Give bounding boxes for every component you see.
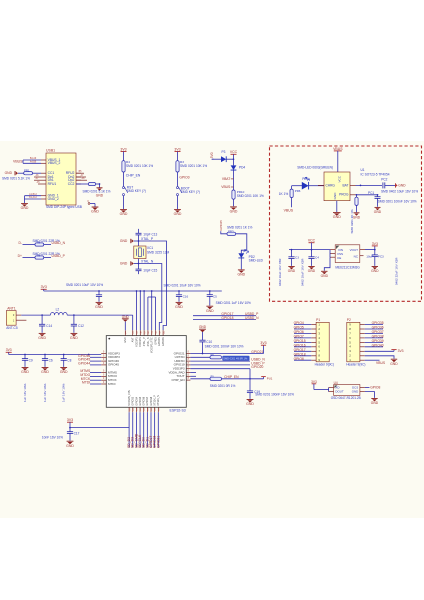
power 3V3 (c17) xyxy=(67,421,73,423)
svg-text:CC2: CC2 xyxy=(68,182,75,186)
svg-text:0402 22uF 16V X5R: 0402 22uF 16V X5R xyxy=(395,257,399,285)
svg-text:GPIO6: GPIO6 xyxy=(294,330,304,334)
svg-text:GPIO36: GPIO36 xyxy=(143,396,146,405)
svg-text:GND: GND xyxy=(288,269,296,273)
svg-text:GPIO37: GPIO37 xyxy=(372,330,384,334)
svg-text:C3: C3 xyxy=(295,255,299,259)
node XTAL_N xyxy=(138,259,140,270)
ground (usb shell right) xyxy=(92,206,99,208)
svg-text:10pF C13: 10pF C13 xyxy=(143,232,157,236)
svg-text:SMD 0201 10uF 10V 10%: SMD 0201 10uF 10V 10% xyxy=(66,283,103,287)
reg right pins xyxy=(360,249,365,251)
svg-text:VCC: VCC xyxy=(338,175,342,182)
power 3V3 (p2) xyxy=(365,350,394,352)
pin stubs right xyxy=(190,372,196,374)
svg-text:RFU1: RFU1 xyxy=(48,182,57,186)
ground (usb cc1) xyxy=(14,171,16,175)
svg-text:SMD 0201 10K 1%: SMD 0201 10K 1% xyxy=(126,164,153,168)
capacitor C9 xyxy=(24,354,26,356)
capacitor C3 xyxy=(178,290,180,292)
capacitor C12 xyxy=(73,315,75,324)
capacitor C14 xyxy=(41,315,43,324)
svg-text:VBUS_2: VBUS_2 xyxy=(48,161,61,165)
svg-text:VBUS: VBUS xyxy=(333,147,343,151)
svg-text:PC2: PC2 xyxy=(381,178,387,182)
wire BAT net xyxy=(356,184,383,186)
power 3V3 (vout) xyxy=(374,246,376,250)
svg-text:GPIO18: GPIO18 xyxy=(221,316,233,320)
svg-text:GPIO33: GPIO33 xyxy=(132,396,135,405)
svg-text:VDD3P3_CPU: VDD3P3_CPU xyxy=(128,390,131,406)
svg-text:GND: GND xyxy=(120,239,128,243)
button BOOT xyxy=(177,187,179,189)
svg-text:C14: C14 xyxy=(46,324,52,328)
svg-text:GND: GND xyxy=(21,370,29,374)
node XTAL_P xyxy=(138,240,140,242)
svg-text:SMD 0201 10uF 16V 10%: SMD 0201 10uF 16V 10% xyxy=(164,283,201,287)
resistor R3 10K xyxy=(176,161,179,172)
svg-text:GND: GND xyxy=(41,370,49,374)
svg-text:GPIO21: GPIO21 xyxy=(156,436,160,448)
mcu right pins xyxy=(186,353,190,355)
svg-text:GPIO39: GPIO39 xyxy=(372,339,384,343)
svg-text:SMD 0201 100nF 16V 10%: SMD 0201 100nF 16V 10% xyxy=(255,393,294,397)
ground (c17) xyxy=(67,440,74,442)
svg-text:GND: GND xyxy=(5,171,13,175)
header P1 xyxy=(316,322,329,362)
svg-text:GPIO35: GPIO35 xyxy=(139,396,142,405)
ground (pc1) xyxy=(375,206,381,208)
svg-text:VBUS: VBUS xyxy=(376,361,386,365)
svg-text:3V3: 3V3 xyxy=(260,341,266,345)
power 3V3 (gpio21) xyxy=(263,345,265,353)
svg-text:SMD 0201 2K 1%: SMD 0201 2K 1% xyxy=(350,209,354,233)
svg-text:GND: GND xyxy=(120,262,128,266)
svg-text:GND: GND xyxy=(175,305,183,309)
svg-text:SMD 0402 10uF 16V 10%: SMD 0402 10uF 16V 10% xyxy=(381,189,418,193)
power VCC xyxy=(231,153,237,155)
wire vin rail xyxy=(289,249,330,251)
ground (pc4) xyxy=(308,266,314,268)
svg-text:VBUS: VBUS xyxy=(13,159,23,163)
svg-text:XC1: XC1 xyxy=(147,246,153,250)
svg-text:GND: GND xyxy=(60,370,68,374)
capacitor C2 xyxy=(98,290,100,292)
wire xtal_p to mcu xyxy=(139,241,167,330)
ground (xtal n) xyxy=(134,263,139,265)
svg-text:A1,B12: A1,B12 xyxy=(29,193,37,196)
svg-text:GPIO5: GPIO5 xyxy=(294,326,304,330)
svg-text:GPIO46: GPIO46 xyxy=(162,337,165,346)
svg-text:3V3: 3V3 xyxy=(6,348,12,352)
ground (c14) xyxy=(39,332,46,334)
svg-text:GPIO34: GPIO34 xyxy=(135,396,138,405)
wire antenna feed xyxy=(21,314,50,316)
svg-text:GND: GND xyxy=(91,210,99,214)
svg-text:XTAL_P: XTAL_P xyxy=(141,237,154,241)
diode PD4 xyxy=(233,159,235,165)
wire to mcu bottom pin xyxy=(70,427,129,429)
regulator U2 ME6211 xyxy=(335,245,360,263)
svg-text:XT32K_N: XT32K_N xyxy=(157,395,160,406)
svg-text:GPIO15: GPIO15 xyxy=(294,339,306,343)
svg-text:C8: C8 xyxy=(67,358,71,362)
pin RFU2 stub xyxy=(76,172,84,174)
svg-text:3V3: 3V3 xyxy=(311,380,317,384)
wire mcu bottom nets xyxy=(128,412,130,447)
svg-text:VOUT: VOUT xyxy=(350,248,359,252)
svg-text:XTAL_P: XTAL_P xyxy=(143,337,146,346)
wire gpio18 row xyxy=(193,319,256,321)
svg-text:D+: D+ xyxy=(18,254,22,258)
svg-text:VDD3P3_RTC: VDD3P3_RTC xyxy=(151,337,154,353)
pin Dp2 stub xyxy=(76,179,87,181)
svg-text:VBUS: VBUS xyxy=(221,185,231,189)
mcu U5 ESP32 xyxy=(106,336,186,408)
node VBUS (p2) xyxy=(365,359,380,361)
reg left pins tie xyxy=(330,249,335,251)
svg-text:B4,A9: B4,A9 xyxy=(30,157,37,160)
ground (p2) xyxy=(365,356,394,359)
svg-text:GPIO8: GPIO8 xyxy=(294,357,304,361)
svg-text:SMD KEY (?): SMD KEY (?) xyxy=(181,190,200,194)
ground (c12) xyxy=(71,332,78,334)
power 3V3 (rst pullup) xyxy=(121,151,127,153)
svg-text:GPIO21: GPIO21 xyxy=(251,350,263,354)
pin RFU1 stub xyxy=(38,183,41,185)
node GPIO8 (osc) xyxy=(365,387,370,389)
capacitor C13 10pF xyxy=(138,229,140,233)
capacitor C10 xyxy=(199,339,205,341)
crystal XC1 xyxy=(134,246,146,259)
resistor R7 2K xyxy=(356,195,358,197)
svg-text:MTDI: MTDI xyxy=(108,382,116,386)
svg-text:GND: GND xyxy=(199,325,207,329)
svg-text:VDD3P3: VDD3P3 xyxy=(139,337,142,347)
resistor R4 10K xyxy=(122,161,125,172)
svg-text:C9: C9 xyxy=(29,358,33,362)
highlighted net box xyxy=(222,356,249,361)
ground (c8) xyxy=(60,367,67,369)
svg-text:PR1: PR1 xyxy=(24,169,30,173)
svg-text:GND: GND xyxy=(66,444,74,448)
capacitor C5 xyxy=(209,290,211,292)
pin Dn2 stub xyxy=(76,176,86,178)
svg-text:PC3: PC3 xyxy=(378,255,384,259)
svg-text:PR6: PR6 xyxy=(295,189,301,193)
svg-text:GND: GND xyxy=(237,273,245,277)
svg-text:C4: C4 xyxy=(315,255,319,259)
svg-text:ANT: ANT xyxy=(132,337,135,342)
svg-text:SMD 0201 1uF 16V 10%: SMD 0201 1uF 16V 10% xyxy=(216,301,251,305)
power 3V3 (chip_en) xyxy=(263,377,265,379)
svg-text:CHIP_EN: CHIP_EN xyxy=(224,375,239,379)
svg-text:USBD_N: USBD_N xyxy=(245,316,259,320)
svg-text:GND: GND xyxy=(390,362,398,366)
resistor PR6 1K xyxy=(290,189,293,197)
svg-text:VCC: VCC xyxy=(230,150,238,154)
resistor PR10 10K xyxy=(232,190,235,199)
svg-text:5V0: 5V0 xyxy=(210,152,214,158)
svg-text:ANT1: ANT1 xyxy=(7,307,16,311)
svg-text:1K 1%: 1K 1% xyxy=(279,192,289,196)
power GND port (bat) xyxy=(395,183,397,187)
svg-text:3V3: 3V3 xyxy=(372,242,378,246)
usb shell pin 0 xyxy=(88,203,90,205)
svg-text:GND: GND xyxy=(371,269,379,273)
node VBUS (pr6) xyxy=(291,198,293,208)
capacitor C15 10pF xyxy=(136,268,142,270)
svg-text:SMD 0201 100nF 16V 10%: SMD 0201 100nF 16V 10% xyxy=(205,345,244,349)
resistor PR1 5.1K xyxy=(33,172,42,174)
ground (pd2) xyxy=(240,258,242,269)
node GPIO0 xyxy=(177,172,179,187)
ground (xtal p) xyxy=(134,240,139,242)
ground (reg) xyxy=(321,270,327,272)
capacitor PC4 xyxy=(311,250,313,257)
capacitor C19 xyxy=(249,379,251,391)
svg-text:Header 9(9C): Header 9(9C) xyxy=(315,363,334,367)
svg-text:USBD_P: USBD_P xyxy=(52,254,66,258)
svg-text:CHIP_EN: CHIP_EN xyxy=(126,174,141,178)
svg-text:GND: GND xyxy=(371,401,379,405)
ground (pr10) xyxy=(233,199,235,206)
ground (c3) xyxy=(176,301,183,303)
svg-text:SMD 0201 100nF 16V 10%: SMD 0201 100nF 16V 10% xyxy=(378,200,417,204)
svg-text:GND: GND xyxy=(230,210,238,214)
svg-text:10nF 16V 10%: 10nF 16V 10% xyxy=(42,435,63,439)
svg-text:ME6211C33M3G: ME6211C33M3G xyxy=(335,265,360,269)
svg-text:D-: D- xyxy=(18,241,22,245)
wire PROG net xyxy=(356,194,378,196)
node USBD_N xyxy=(190,360,250,362)
svg-text:SMD KEY (?): SMD KEY (?) xyxy=(127,189,146,193)
svg-text:ESP32-S3: ESP32-S3 xyxy=(170,408,186,412)
svg-text:C5: C5 xyxy=(213,294,217,298)
svg-text:GND_2: GND_2 xyxy=(48,197,59,201)
wire vdd drops xyxy=(136,291,138,330)
svg-text:GND: GND xyxy=(374,210,382,214)
svg-text:GND: GND xyxy=(246,402,254,406)
svg-text:GND: GND xyxy=(95,305,103,309)
ground (usb cc2) xyxy=(97,187,103,189)
svg-text:3V3: 3V3 xyxy=(67,418,73,422)
svg-text:XT32K_P: XT32K_P xyxy=(154,395,157,406)
svg-text:GPIO38: GPIO38 xyxy=(372,335,384,339)
svg-text:GPIO40: GPIO40 xyxy=(372,343,384,347)
svg-text:GPIO4: GPIO4 xyxy=(294,321,304,325)
wire vout xyxy=(365,249,375,251)
charger U1 TP4054 xyxy=(324,172,350,201)
svg-text:GPIO36: GPIO36 xyxy=(372,326,384,330)
svg-text:C6: C6 xyxy=(49,358,53,362)
svg-text:CHIP_EN: CHIP_EN xyxy=(171,378,184,382)
svg-text:10pF C15: 10pF C15 xyxy=(143,269,157,273)
svg-text:XTAL_N: XTAL_N xyxy=(147,337,150,346)
ground (r7) xyxy=(354,212,360,214)
svg-text:GND: GND xyxy=(352,390,358,394)
svg-text:3V3: 3V3 xyxy=(398,349,404,353)
svg-text:P3: P3 xyxy=(222,150,226,154)
wire xtal_n to mcu xyxy=(139,264,162,331)
svg-text:GND: GND xyxy=(124,337,127,343)
svg-text:VCC: VCC xyxy=(308,239,316,243)
pin Dn1 stub xyxy=(34,179,41,181)
svg-text:SMD-LED: SMD-LED xyxy=(249,258,264,262)
header P2 xyxy=(347,322,360,362)
svg-text:3V3: 3V3 xyxy=(120,147,126,151)
svg-text:GPIO44: GPIO44 xyxy=(78,362,90,366)
svg-text:GND: GND xyxy=(353,215,361,219)
button RST xyxy=(123,187,125,189)
svg-text:1uF 16V 10%: 1uF 16V 10% xyxy=(23,383,27,402)
svg-text:GND: GND xyxy=(96,194,104,198)
svg-text:1uF 16V 10%: 1uF 16V 10% xyxy=(43,383,47,402)
svg-text:GPIO16: GPIO16 xyxy=(294,343,306,347)
svg-text:C12: C12 xyxy=(78,324,84,328)
svg-text:VBUS: VBUS xyxy=(284,209,294,213)
ground (c9) xyxy=(22,367,29,369)
svg-text:3V3: 3V3 xyxy=(174,147,180,151)
svg-text:ANT-C5: ANT-C5 xyxy=(6,326,18,330)
usb pins left xyxy=(41,159,46,161)
svg-text:GPIO0: GPIO0 xyxy=(154,337,157,345)
svg-text:CHRG: CHRG xyxy=(326,184,336,188)
usb connector USB1 xyxy=(46,153,76,205)
capacitor PC5 xyxy=(291,250,293,257)
svg-text:SMD 0201 5.1K 1%: SMD 0201 5.1K 1% xyxy=(2,176,30,180)
resistor R8 xyxy=(190,356,210,358)
power 3V3 (boot pullup) xyxy=(175,151,181,153)
capacitor C17 xyxy=(69,428,71,432)
svg-text:DOUT: DOUT xyxy=(335,390,343,394)
svg-text:GND: GND xyxy=(321,274,329,278)
svg-text:1uF 16V 10%: 1uF 16V 10% xyxy=(62,383,66,402)
wire to mcu ANT pin xyxy=(67,314,133,316)
ground (usb shell left) xyxy=(21,203,28,205)
mcu bottom pins xyxy=(128,407,130,412)
svg-text:B1,A12: B1,A12 xyxy=(29,196,37,199)
svg-text:PU1: PU1 xyxy=(267,377,273,381)
svg-text:GND: GND xyxy=(333,192,337,200)
svg-text:GND: GND xyxy=(70,336,78,340)
svg-text:PC1: PC1 xyxy=(368,191,374,195)
svg-text:GPIO38: GPIO38 xyxy=(150,396,153,405)
svg-text:0402 10uF 16V X5R: 0402 10uF 16V X5R xyxy=(278,258,282,286)
mcu left net labels xyxy=(90,356,101,358)
svg-text:GPIO0: GPIO0 xyxy=(179,176,189,180)
mcu top pins xyxy=(124,330,126,335)
svg-text:SMD 0201 0R 1%: SMD 0201 0R 1% xyxy=(210,384,236,388)
wire gpio17 row xyxy=(193,315,256,317)
ground (pc3) xyxy=(372,266,378,268)
svg-text:SMD 0201 10K 1%: SMD 0201 10K 1% xyxy=(180,164,207,168)
svg-text:GND: GND xyxy=(21,206,29,210)
svg-text:0402 10uF 16V X5R: 0402 10uF 16V X5R xyxy=(300,258,304,286)
svg-text:GND: GND xyxy=(333,215,341,219)
node GPIO19 xyxy=(190,368,250,370)
svg-text:PR3: PR3 xyxy=(228,230,234,234)
ground (c5) xyxy=(206,305,213,307)
svg-text:SMD 0201 49.9R 1%: SMD 0201 49.9R 1% xyxy=(223,357,248,361)
svg-text:3V3: 3V3 xyxy=(41,285,47,289)
ground (boot) xyxy=(177,196,179,209)
svg-text:VDD3P3: VDD3P3 xyxy=(135,337,138,347)
svg-text:GPIO45: GPIO45 xyxy=(158,337,161,346)
capacitor C6 xyxy=(44,354,46,356)
svg-text:GPIO7: GPIO7 xyxy=(294,335,304,339)
node USBD_P xyxy=(190,364,250,366)
svg-text:C17: C17 xyxy=(74,431,80,435)
dashed power-section border xyxy=(270,146,422,301)
mcu left pins xyxy=(101,353,106,355)
svg-text:GND: GND xyxy=(206,309,214,313)
svg-text:GND: GND xyxy=(398,183,406,187)
svg-text:PD4: PD4 xyxy=(239,166,245,170)
header P1 net labels xyxy=(294,324,311,326)
svg-text:IC SOT23-5 TP4054: IC SOT23-5 TP4054 xyxy=(361,172,390,176)
ground (rst) xyxy=(123,196,125,209)
svg-text:BAT: BAT xyxy=(343,184,349,188)
svg-text:GND: GND xyxy=(308,269,316,273)
svg-text:USBD_N: USBD_N xyxy=(52,241,66,245)
svg-text:GND: GND xyxy=(122,315,130,319)
pin stubs osc right xyxy=(360,387,365,389)
ground (c6) xyxy=(42,367,49,369)
ground (pc5) xyxy=(288,266,294,268)
svg-text:OSD 0647-R1201.2B: OSD 0647-R1201.2B xyxy=(331,396,361,400)
svg-text:GPIO45: GPIO45 xyxy=(219,220,223,231)
svg-text:GND: GND xyxy=(38,336,46,340)
svg-text:MTDI: MTDI xyxy=(82,381,90,385)
svg-text:U4: U4 xyxy=(334,381,338,385)
ground (osc) xyxy=(365,392,375,398)
svg-text:VBAT: VBAT xyxy=(222,177,230,181)
svg-text:CE: CE xyxy=(337,256,341,260)
svg-text:C16: C16 xyxy=(183,294,189,298)
svg-text:A4,B9: A4,B9 xyxy=(30,161,37,164)
svg-text:GPIO18: GPIO18 xyxy=(294,352,306,356)
pin stubs charger xyxy=(318,184,324,186)
wire GND pins xyxy=(25,195,42,197)
ground (charger) xyxy=(336,201,338,212)
svg-text:GPIO45: GPIO45 xyxy=(108,363,119,367)
svg-text:PROG: PROG xyxy=(339,193,349,197)
ground (c2) xyxy=(96,301,103,303)
pin Dp1 stub xyxy=(34,176,41,178)
capacitor C8 xyxy=(63,354,65,356)
capacitor PC3 xyxy=(374,250,376,255)
svg-text:10uF: 10uF xyxy=(366,255,373,259)
svg-text:GND: GND xyxy=(120,212,128,216)
svg-text:L2: L2 xyxy=(56,308,60,312)
svg-text:SMD-LED 0603(GREEN): SMD-LED 0603(GREEN) xyxy=(297,166,333,170)
svg-text:SMD 0201 10K 1%: SMD 0201 10K 1% xyxy=(237,194,264,198)
svg-text:GND: GND xyxy=(174,212,182,216)
ground (c19) xyxy=(247,399,254,401)
svg-text:USB1: USB1 xyxy=(46,149,55,153)
header P2 net labels xyxy=(365,324,383,326)
resistor PR2 5.1K xyxy=(76,183,89,185)
resistor R9 0R chip_en xyxy=(190,378,210,380)
svg-text:GPIO35: GPIO35 xyxy=(372,321,384,325)
svg-text:GPIO37: GPIO37 xyxy=(146,396,149,405)
wire gpio21 row xyxy=(190,353,263,355)
led PD2 xyxy=(238,253,244,258)
svg-text:GPIO17: GPIO17 xyxy=(294,348,306,352)
power 3V3 rail xyxy=(41,288,47,290)
svg-text:GPIO20: GPIO20 xyxy=(251,365,263,369)
